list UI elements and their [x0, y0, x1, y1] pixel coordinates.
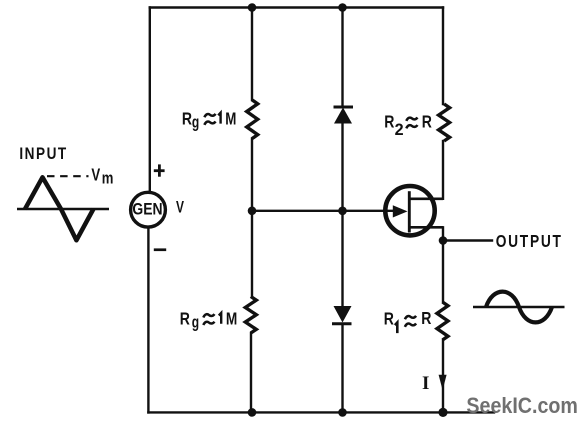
wire top rail [150, 6, 443, 8]
transistor Q1 (FET) [385, 186, 443, 235]
svg-text:g: g [192, 314, 199, 332]
resistor Rg (lower) [245, 297, 256, 334]
junction bottom rail / Rg column [248, 408, 257, 417]
svg-text:I: I [422, 373, 429, 394]
polarity + [154, 164, 165, 176]
output sine waveform [486, 292, 552, 323]
drain lead [409, 197, 443, 200]
wire left column lower (GEN to bottom rail) [147, 228, 149, 412]
generator GEN [131, 192, 166, 227]
junction top rail / diode column [338, 3, 347, 12]
output sine waveform baseline [473, 306, 565, 308]
value label R2≈R [384, 112, 432, 139]
current arrow I [439, 375, 447, 391]
wire Rg column middle (upper Rg to lower Rg through gate node) [251, 139, 253, 297]
svg-text:R: R [384, 309, 394, 329]
svg-text:R: R [182, 109, 192, 129]
polarity - [154, 248, 166, 251]
junction top rail / Rg column [248, 3, 257, 12]
diode CR1 (upper, cathode up) [334, 107, 354, 124]
junction gate wire / diode column [338, 207, 347, 216]
wire FET source to R1 [442, 227, 444, 302]
junction bottom rail / diode column [338, 408, 347, 417]
wire diode column middle (CR1 to CR2) [341, 123, 343, 306]
svg-text:m: m [102, 169, 114, 188]
junction gate wire / Rg column [248, 207, 257, 216]
gate bar [408, 191, 411, 232]
svg-text:M: M [225, 110, 236, 129]
wire diode column upper (top rail to CR1) [341, 8, 343, 108]
svg-text:GEN: GEN [132, 200, 162, 219]
svg-text:INPUT: INPUT [19, 145, 67, 163]
junction output node [439, 236, 448, 245]
label Vm [91, 166, 113, 188]
svg-text:V: V [176, 199, 184, 217]
wire Rg column lower (lower Rg to bottom rail) [250, 333, 252, 412]
junction bottom rail / right column [438, 408, 447, 417]
svg-text:g: g [192, 113, 199, 131]
value label Rg≈1M (upper) [182, 109, 236, 132]
resistor R1 [437, 302, 448, 340]
input waveform baseline [17, 208, 109, 210]
wire gate node horizontal (Rg node to FET gate) [252, 210, 394, 212]
svg-text:M: M [226, 310, 237, 329]
svg-text:V: V [91, 166, 100, 185]
wire R1 to bottom rail [442, 340, 444, 412]
svg-text:R: R [180, 309, 190, 329]
wire left column upper (top rail to GEN) [149, 8, 151, 192]
wire diode column lower (CR2 to bottom rail) [341, 324, 343, 412]
value label Rg≈1M (lower) [180, 309, 237, 332]
svg-text:SeekIC.com: SeekIC.com [466, 393, 578, 418]
wire bottom rail [148, 411, 494, 413]
wire right column upper (top rail corner to R2) [442, 8, 444, 105]
resistor Rg (upper) [247, 100, 258, 139]
resistor R2 [439, 104, 450, 141]
source lead [409, 226, 443, 229]
svg-text:R: R [384, 112, 394, 132]
Vm dashed level line [47, 175, 89, 177]
wire output stub [443, 239, 492, 241]
diode CR2 (lower, cathode down) [332, 306, 352, 324]
svg-text:2: 2 [395, 119, 404, 138]
gate arrow [393, 205, 408, 217]
svg-text:OUTPUT: OUTPUT [496, 231, 563, 251]
svg-text:R: R [422, 112, 432, 132]
wire R2 to FET drain [442, 141, 444, 199]
svg-text:R: R [421, 309, 431, 329]
input triangle waveform [25, 177, 93, 240]
value label R1≈R [384, 309, 432, 334]
wire Rg column upper (top rail to upper Rg) [251, 8, 253, 101]
